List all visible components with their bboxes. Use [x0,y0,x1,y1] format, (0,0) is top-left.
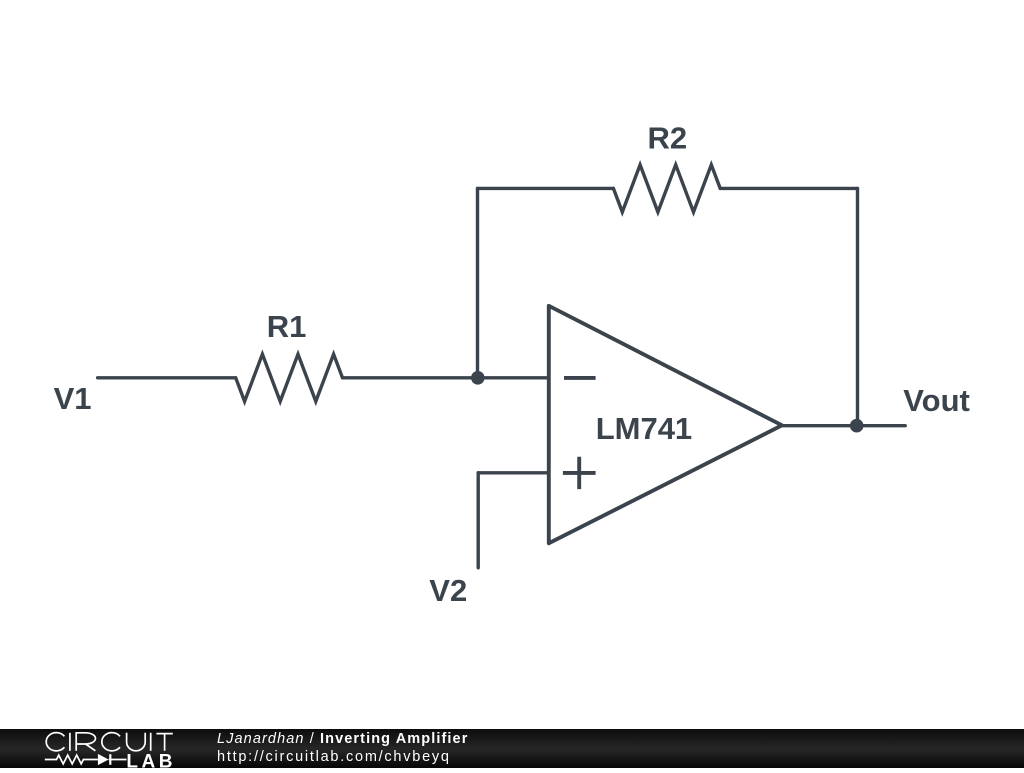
footer title text [217,731,468,747]
letter I (2nd) [150,733,152,751]
wire feedback top right segment [720,187,857,190]
junction dot node A [471,371,485,385]
letter T [156,734,172,751]
logo diode [98,754,109,765]
wire feedback left vertical [476,188,479,377]
op-amp non-inverting input symbol (plus) [563,457,596,489]
letter U [127,733,146,751]
footer url [217,749,451,765]
letter C (2nd) [102,733,120,751]
svg-text:R2: R2 [648,121,688,156]
wire feedback top left segment [478,187,614,190]
svg-text:Vout: Vout [903,383,970,418]
wire V2 to non-inverting input [478,471,549,474]
wire V1 lead [98,376,236,379]
logo resistor-diode row [45,755,127,764]
svg-text:LM741: LM741 [596,411,692,446]
svg-text:V1: V1 [54,381,92,416]
svg-text:R1: R1 [267,309,307,344]
svg-text:V2: V2 [429,573,467,608]
wire feedback right vertical [856,188,859,425]
op-amp U1 LM741 triangle [549,306,782,544]
junction dot output node [850,419,864,433]
CircuitLab logo [40,728,220,768]
svg-text:LAB: LAB [126,751,176,768]
op-amp inverting input symbol (minus) [564,376,596,380]
letter I [69,733,71,751]
wire R1 to inverting input (node A) [343,376,549,379]
resistor R1 [236,354,343,401]
wire V2 vertical lead [477,473,480,568]
wire output lead [782,424,905,427]
letter R [76,733,95,751]
footer bar [0,729,1024,768]
resistor R2 [613,165,720,212]
letter C [46,733,64,751]
